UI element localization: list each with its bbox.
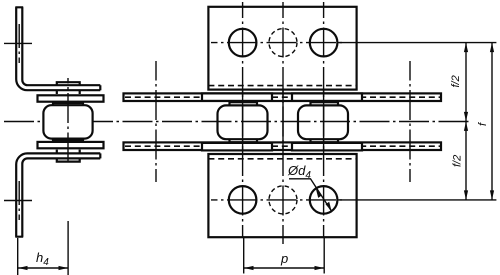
svg-text:p: p (280, 251, 288, 266)
solid center segments through chain band (243, 89, 324, 151)
bottom link plate (end view) (38, 142, 104, 148)
bushing tab below left roller (230, 139, 258, 142)
f extension line top (338, 42, 497, 44)
top leg hole centerline horizontal (4, 42, 35, 44)
top pin head (57, 82, 80, 85)
d4 arrow upper (316, 189, 322, 198)
p extension line right (323, 237, 325, 274)
hole centerline vertical middle (282, 2, 284, 244)
top leg hole centerline vertical (18, 24, 20, 63)
inner link plate segment top-left (202, 93, 272, 101)
p arrow left (244, 266, 254, 270)
pin sides in gap (bottom) (57, 150, 80, 153)
top link plate (end view) (38, 95, 104, 101)
hidden pin line inside top strip (125, 96, 440, 98)
bottom bent leg end caps (15, 153, 100, 236)
top bushing (end view) (53, 103, 83, 105)
bottom attachment plate outline (208, 154, 356, 237)
h4 extension line left (17, 238, 19, 275)
bottom leg hole centerline vertical (18, 181, 20, 220)
hole right bottom plate (310, 186, 338, 214)
bottom bent leg inner edge (22, 158, 100, 236)
inner link plate segment bottom-left (202, 143, 272, 151)
hole centerline vertical right (323, 2, 325, 237)
svg-text:f/2: f/2 (452, 155, 464, 167)
bushing tab above left roller (230, 102, 258, 105)
svg-text:f/2: f/2 (450, 75, 462, 87)
p arrow right (315, 266, 325, 270)
inner link plate segment top-right (292, 93, 362, 101)
h4 arrow right (59, 266, 69, 270)
f extension line bottom (338, 199, 497, 201)
pin centerline right joint (409, 61, 411, 182)
top attachment plate outline (208, 7, 356, 90)
outer link plate strip top (plan view) (124, 93, 442, 101)
bottom attachment plate fold hidden line (208, 158, 356, 160)
right roller (plan view) (298, 105, 348, 139)
bottom bent leg outer edge (16, 153, 100, 236)
bushing tab below right roller (311, 139, 339, 142)
hole row centerline bottom (211, 199, 345, 201)
roller (end view) (43, 105, 92, 138)
f dimension line (491, 43, 493, 200)
hole left top plate (229, 29, 257, 57)
outer link plate strip bottom (plan view) (124, 142, 442, 150)
f arrow up (490, 43, 494, 53)
hole middle bottom plate (hidden) (269, 186, 297, 214)
d4 arrow lower (326, 202, 332, 211)
h4 dimension line (18, 267, 68, 269)
main horizontal centerline (4, 121, 472, 123)
left roller (plan view) (218, 105, 268, 139)
f/2 top arrow down (464, 112, 468, 122)
bushing tab above right roller (311, 102, 339, 105)
top bent leg inner edge (22, 7, 100, 85)
h4 arrow left (18, 266, 28, 270)
hole middle top plate (hidden) (269, 29, 297, 57)
f/2 top arrow up (464, 43, 468, 53)
p dimension line (244, 267, 324, 269)
p extension line left (243, 237, 245, 274)
bottom leg hole centerline horizontal (4, 200, 35, 202)
f arrow down (490, 190, 494, 200)
hole left bottom plate (229, 186, 257, 214)
inner link plate segment bottom-right (292, 143, 362, 151)
f/2 bottom arrow down (464, 190, 468, 200)
pin centerline (end view) (67, 78, 69, 166)
bottom bushing (end view) (53, 138, 83, 140)
top bent leg end caps (15, 7, 100, 90)
pin sides in gap (top) (57, 91, 80, 94)
f/2 bottom dimension line (465, 121, 467, 199)
d4 leader line (289, 179, 332, 211)
top bent leg outer edge (16, 7, 100, 90)
hidden pin line inside bottom strip (125, 145, 440, 147)
hole row centerline top (211, 42, 345, 44)
hole right top plate (310, 29, 338, 57)
pin centerline left joint (155, 61, 157, 182)
f/2 bottom arrow up (464, 121, 468, 130)
f/2 top dimension line (465, 43, 467, 122)
top attachment plate fold hidden line (208, 85, 356, 87)
bottom pin head (57, 158, 80, 161)
hole centerline vertical left (242, 2, 244, 237)
h4 extension line right (67, 221, 69, 275)
